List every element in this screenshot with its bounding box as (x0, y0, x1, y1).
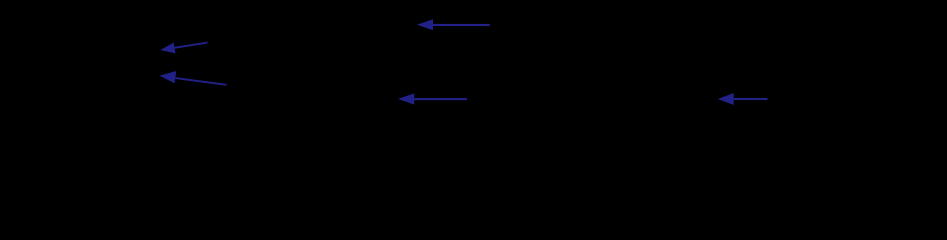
wire (733, 98, 768, 100)
arrow 4 (bottom center, pointing left) (398, 93, 467, 104)
arrow 5 (bottom right, pointing left) (718, 93, 768, 105)
wire (433, 24, 490, 26)
wire (414, 98, 467, 100)
arrow 2 (upper left, pointing left-down) (160, 43, 207, 54)
arrowhead 4 (398, 93, 414, 104)
arrowhead 3 (160, 71, 177, 83)
arrowhead 1 (417, 19, 433, 30)
arrow 3 (lower left, pointing left-up) (160, 71, 227, 85)
wire (175, 78, 226, 85)
arrow 1 (top center, pointing left) (417, 19, 490, 30)
arrowhead 2 (160, 43, 175, 54)
wire (175, 43, 208, 48)
arrowhead 5 (718, 93, 734, 105)
